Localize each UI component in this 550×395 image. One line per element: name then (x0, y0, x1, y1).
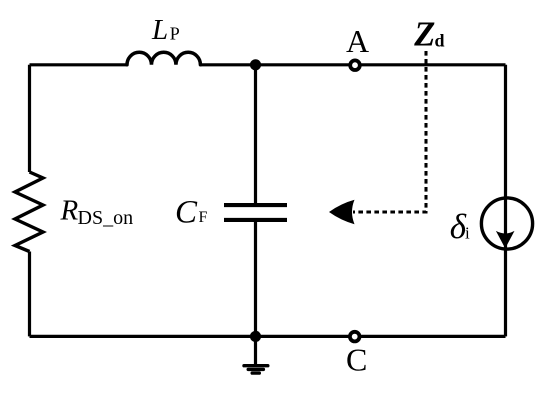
svg-text:C: C (175, 195, 198, 231)
svg-text:C: C (346, 342, 367, 378)
svg-text:F: F (199, 209, 208, 226)
svg-text:i: i (465, 223, 470, 242)
svg-text:DS_on: DS_on (78, 207, 134, 229)
svg-text:P: P (170, 24, 180, 44)
svg-text:L: L (151, 14, 168, 46)
svg-text:Z: Z (413, 16, 435, 54)
svg-text:R: R (60, 195, 79, 227)
svg-text:A: A (346, 23, 369, 59)
svg-text:d: d (435, 30, 445, 50)
